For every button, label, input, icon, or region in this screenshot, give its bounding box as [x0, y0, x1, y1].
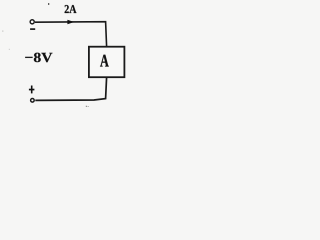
terminal (negative, top-left): [30, 20, 34, 24]
polarity plus mark: [31, 86, 33, 94]
label A: [100, 55, 109, 67]
box element A: [89, 47, 125, 77]
current arrowhead: [67, 20, 74, 25]
source label -8V: [25, 53, 52, 63]
label 2A: [65, 5, 77, 13]
terminal (positive, bottom-left): [31, 99, 35, 103]
polarity minus mark: [30, 28, 35, 30]
wire (top run from terminal to right corner, down to box top): [35, 22, 107, 47]
wire (bottom run from box bottom down and left to terminal): [35, 77, 106, 100]
